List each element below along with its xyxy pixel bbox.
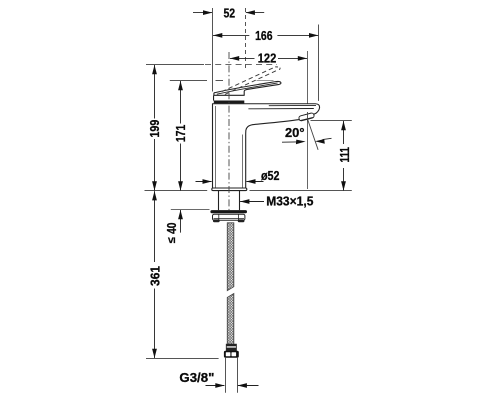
threaded shank right — [239, 191, 241, 210]
nut facet right — [238, 214, 240, 220]
dimension 111 — [343, 121, 345, 191]
dimension 52 line right — [246, 12, 264, 14]
dimension dia52 arrows — [196, 181, 212, 183]
hose crimp collar — [226, 344, 236, 351]
threaded shank left — [218, 191, 220, 210]
body inner highlight right — [242, 135, 244, 188]
fastening nut — [213, 214, 245, 220]
svg-text:≤: ≤ — [166, 237, 178, 243]
cap shadow ring — [214, 101, 245, 104]
extension line segment near lever tip — [257, 80, 274, 82]
G3/8 thread left — [225, 358, 227, 393]
20deg arrow right — [323, 138, 332, 139]
hose lower section — [227, 294, 234, 345]
M33x1,5 leader arrow — [240, 201, 264, 203]
dimension 171 — [180, 81, 182, 191]
extension line: deck level right — [250, 190, 352, 192]
dimension le40 — [180, 210, 182, 233]
lever handle (closed position) — [214, 81, 281, 95]
svg-text:361: 361 — [148, 266, 163, 286]
svg-text:52: 52 — [223, 6, 235, 21]
extension line: spout tip datum (166 right) — [318, 25, 320, 101]
nut foot right — [238, 219, 245, 222]
20deg water stream line — [308, 119, 319, 150]
nut facet left — [218, 214, 220, 220]
svg-text:111: 111 — [337, 147, 352, 162]
hose hex nut — [224, 351, 239, 358]
dimension 122 — [230, 57, 307, 59]
aerator — [298, 113, 314, 122]
svg-text:199: 199 — [147, 120, 162, 138]
faucet body and spout outline — [213, 104, 320, 188]
extension line: body left edge extended to top (52/166 datum) — [212, 8, 214, 92]
extension line: max mounting thickness ref (under-deck) — [171, 209, 210, 211]
dimension 52 line left — [193, 12, 212, 14]
svg-text:20°: 20° — [285, 125, 305, 140]
svg-text:M33×1,5: M33×1,5 — [266, 194, 313, 209]
aerator inner line — [300, 117, 313, 120]
nut foot left — [213, 219, 220, 222]
dimension 166 — [213, 34, 318, 36]
svg-text:40: 40 — [164, 223, 179, 234]
extension line: deck level left — [145, 190, 208, 192]
deck flange — [212, 188, 247, 191]
lever raised position (dashed) line 1 — [222, 67, 275, 92]
body inner highlight left — [215, 106, 217, 188]
extension line: closed lever top height (171 top ref) — [170, 80, 207, 82]
spout face line upper — [269, 104, 316, 106]
G3/8 dimension arrows — [206, 385, 225, 387]
G3/8 thread right — [237, 358, 239, 393]
dimension 361 — [154, 191, 156, 358]
aerator axis line crossing — [307, 112, 309, 122]
centerline of body — [228, 52, 230, 211]
svg-text:G3/8": G3/8" — [179, 370, 214, 385]
extension line: raised lever tip height (199 top ref) — [146, 64, 204, 66]
svg-text:ø52: ø52 — [261, 168, 280, 183]
fastening washer — [210, 210, 247, 213]
lever raised tip (dashed) — [275, 67, 280, 70]
dimension 199 — [154, 65, 156, 191]
20deg arrow left — [282, 141, 297, 143]
svg-text:166: 166 — [255, 28, 272, 43]
nut bottom line — [214, 218, 245, 220]
hose upper section — [227, 223, 234, 291]
extension line: hose connection level (361 bottom ref) — [146, 358, 219, 360]
spout face line lower — [248, 108, 313, 110]
extension line: dashed body right edge extended to top (52 datum) — [245, 8, 247, 68]
cartridge cap below lever — [213, 95, 215, 100]
lever raised position (dashed) line 2 — [225, 70, 278, 95]
lever top face inner edge — [217, 83, 278, 94]
extension line: outlet height ref (111 top) — [311, 120, 352, 122]
svg-text:171: 171 — [173, 125, 188, 143]
extension line: aerator axis datum (122 right / 20deg vertical ref) — [307, 51, 309, 189]
svg-text:122: 122 — [258, 51, 277, 66]
